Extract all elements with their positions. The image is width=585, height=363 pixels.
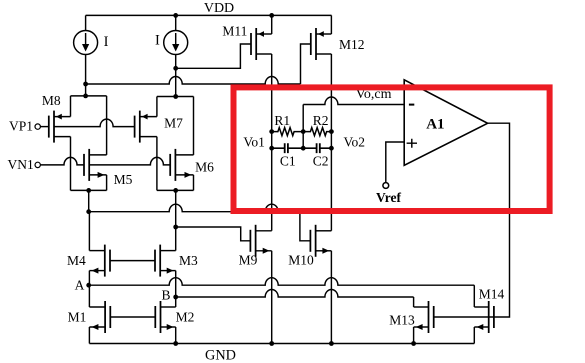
svg-text:M8: M8 (42, 93, 61, 108)
svg-text:M6: M6 (195, 160, 214, 175)
node dot C2/Vo2 (329, 146, 334, 151)
wire M11 gate to node N2 (176, 44, 251, 68)
node dot A (86, 283, 91, 288)
wire node Vo2 column M12 drain to M10 drain (330, 54, 332, 231)
wire M13 source fall to GND (413, 327, 415, 344)
NMOS transistor M4 (89, 245, 110, 277)
wire node Vo,cm to op-amp inverting input with hop (303, 97, 404, 104)
wire M1 drain riser to node A (88, 285, 90, 307)
node dot VDD / I2 (173, 13, 178, 18)
svg-text:M2: M2 (176, 309, 195, 324)
svg-text:M1: M1 (68, 309, 87, 324)
wire M8 to M7 gate with hop (54, 119, 135, 126)
wire M6 foot drop to M3 drain (175, 190, 177, 250)
wire bias bus from node N1 to M12 gate with hops (86, 77, 301, 84)
wire M7 drain fall (156, 137, 158, 191)
wire M8 source riser (70, 96, 72, 117)
op-amp A1 (404, 80, 487, 166)
svg-text:A: A (75, 278, 85, 293)
NMOS transistor M5 (84, 149, 107, 181)
NMOS transistor M1 (89, 301, 110, 333)
node dot R1/R2 midpoint (301, 129, 306, 134)
wire node A rail with hops (89, 278, 475, 286)
node dot C1/C2 midpoint (301, 146, 306, 151)
wire M5 source fall (106, 175, 108, 191)
wire CMFB midpoint column (302, 105, 304, 149)
svg-text:C2: C2 (313, 154, 329, 169)
svg-text:Vo1: Vo1 (243, 134, 265, 149)
NMOS transistor M9 (250, 225, 271, 257)
node dot M6 foot (173, 188, 178, 193)
svg-text:Vref: Vref (376, 190, 401, 205)
svg-text:GND: GND (205, 348, 236, 363)
node dot N2 on M7 source box (173, 94, 178, 99)
wire M2 drain riser to node B (175, 297, 177, 307)
wire M4 gate to M3 gate (110, 260, 155, 262)
NMOS transistor M3 (155, 245, 176, 277)
svg-text:M11: M11 (222, 24, 247, 39)
node dot N1 / bias bus (83, 82, 88, 87)
wire M11 source riser to VDD (271, 15, 273, 34)
VDD rail (86, 14, 332, 16)
svg-text:M4: M4 (67, 253, 86, 268)
node dot GND/M10 (329, 341, 334, 346)
wire M9 source fall to GND (271, 251, 273, 344)
svg-text:R1: R1 (274, 113, 290, 128)
wire M3 source fall to node B (175, 271, 177, 297)
svg-text:M5: M5 (114, 172, 133, 187)
wire Vref to op-amp non-inverting input (386, 142, 404, 183)
node dot GND/M13 (411, 341, 416, 346)
svg-text:M7: M7 (164, 116, 183, 131)
wire VP1 to M8 gate (40, 126, 48, 128)
svg-text:VP1: VP1 (9, 119, 33, 134)
wire M9 gate feed (176, 227, 251, 241)
svg-text:R2: R2 (313, 113, 329, 128)
node dot M9 gate tap (173, 225, 178, 230)
node dot Vo1/C1 (269, 146, 274, 151)
wire current source I2 to node N2 (175, 55, 177, 97)
wire M10 source fall to GND (330, 251, 332, 344)
svg-text:A1: A1 (426, 116, 444, 132)
PMOS transistor M8 (49, 111, 71, 143)
wire M4 drain riser (88, 212, 90, 251)
node dot VDD / M11 source (269, 13, 274, 18)
wire node N1 to M8 source box (71, 95, 107, 97)
svg-text:M13: M13 (389, 313, 415, 328)
wire M7 box right / M6 drain riser (193, 97, 195, 155)
wire M7 source riser (156, 97, 158, 117)
NMOS transistor M6 (170, 149, 193, 181)
wire M12 gate to bias bus (301, 44, 311, 84)
wire M5 foot rail (71, 189, 107, 191)
current source I1 (74, 31, 98, 55)
svg-text:Vo2: Vo2 (344, 134, 366, 149)
input terminal VN1 (35, 162, 40, 167)
wire M1 source fall to GND (88, 327, 90, 344)
svg-text:VN1: VN1 (7, 157, 33, 172)
wire op-amp output to M14 gate (488, 123, 510, 317)
wire node B rail with hops (176, 290, 414, 297)
wire first-stage node to M10 gate with hops (89, 204, 300, 211)
svg-text:M14: M14 (479, 287, 505, 302)
wire M2 source fall to GND (175, 327, 177, 344)
svg-text:M9: M9 (239, 253, 258, 268)
node dot GND/M9 (269, 341, 274, 346)
wire current source I1 to node N1 (85, 55, 87, 96)
svg-text:VDD: VDD (204, 1, 234, 16)
resistor R2 (303, 128, 331, 136)
wire VDD to current source I2 (175, 15, 177, 30)
wire node Vo1 column M11 drain to M9 drain (271, 54, 273, 231)
wire VN1 to M5 gate with hop (40, 157, 84, 164)
NMOS transistor M14 (474, 301, 494, 333)
wire M8 drain fall (70, 137, 72, 191)
PMOS transistor M12 (311, 28, 332, 60)
wire M5 foot drop to first-stage node (88, 190, 90, 211)
wire node B corner fall to M13 drain (413, 297, 415, 307)
node dot GND/M2 (173, 341, 178, 346)
red highlight box around CMFB network (234, 87, 550, 211)
PMOS transistor M11 (251, 28, 272, 60)
wire M6 source fall (193, 175, 195, 191)
current source I2 (164, 31, 188, 55)
NMOS transistor M13 (414, 301, 434, 333)
wire M14 source fall to GND (473, 327, 475, 344)
wire M1 gate to M2 gate (110, 316, 155, 318)
input terminal VP1 (35, 124, 40, 129)
terminal Vref (383, 183, 389, 189)
svg-text:M3: M3 (179, 253, 198, 268)
wire M4 source fall to node A (88, 271, 90, 286)
svg-text:C1: C1 (280, 154, 296, 169)
wire M5 to M6 gate with hop (89, 157, 170, 164)
PMOS transistor M7 (135, 111, 157, 143)
capacitor C1 (272, 143, 304, 153)
svg-text:I: I (155, 33, 160, 49)
wire M13 gate to M14 gate (434, 316, 494, 318)
node dot N2 / M11 gate (173, 66, 178, 71)
svg-text:B: B (161, 287, 170, 302)
wire node A corner fall to M14 drain (473, 285, 475, 307)
GND rail (89, 343, 474, 345)
NMOS transistor M10 (310, 225, 331, 257)
wire M10 gate feed (300, 212, 311, 241)
wire M12 source riser to VDD (330, 15, 332, 34)
node dot R2/Vo2 (329, 129, 334, 134)
svg-text:M10: M10 (288, 253, 314, 268)
node dot first-stage left (86, 209, 91, 214)
resistor R1 (272, 128, 304, 136)
svg-text:M12: M12 (339, 37, 365, 52)
capacitor C2 (303, 143, 331, 153)
wire VDD to current source I1 (85, 15, 87, 30)
NMOS transistor M2 (155, 301, 175, 333)
node dot Vo1/R1 (269, 129, 274, 134)
wire M8 box right / M5 drain riser (106, 96, 108, 155)
node dot B (173, 295, 178, 300)
svg-text:I: I (104, 34, 109, 50)
wire node N2 to M7 source box (157, 96, 194, 98)
node dot M5 foot (86, 188, 91, 193)
wire M6 foot rail (157, 189, 194, 191)
node dot N1 on M8 source box (83, 94, 88, 99)
